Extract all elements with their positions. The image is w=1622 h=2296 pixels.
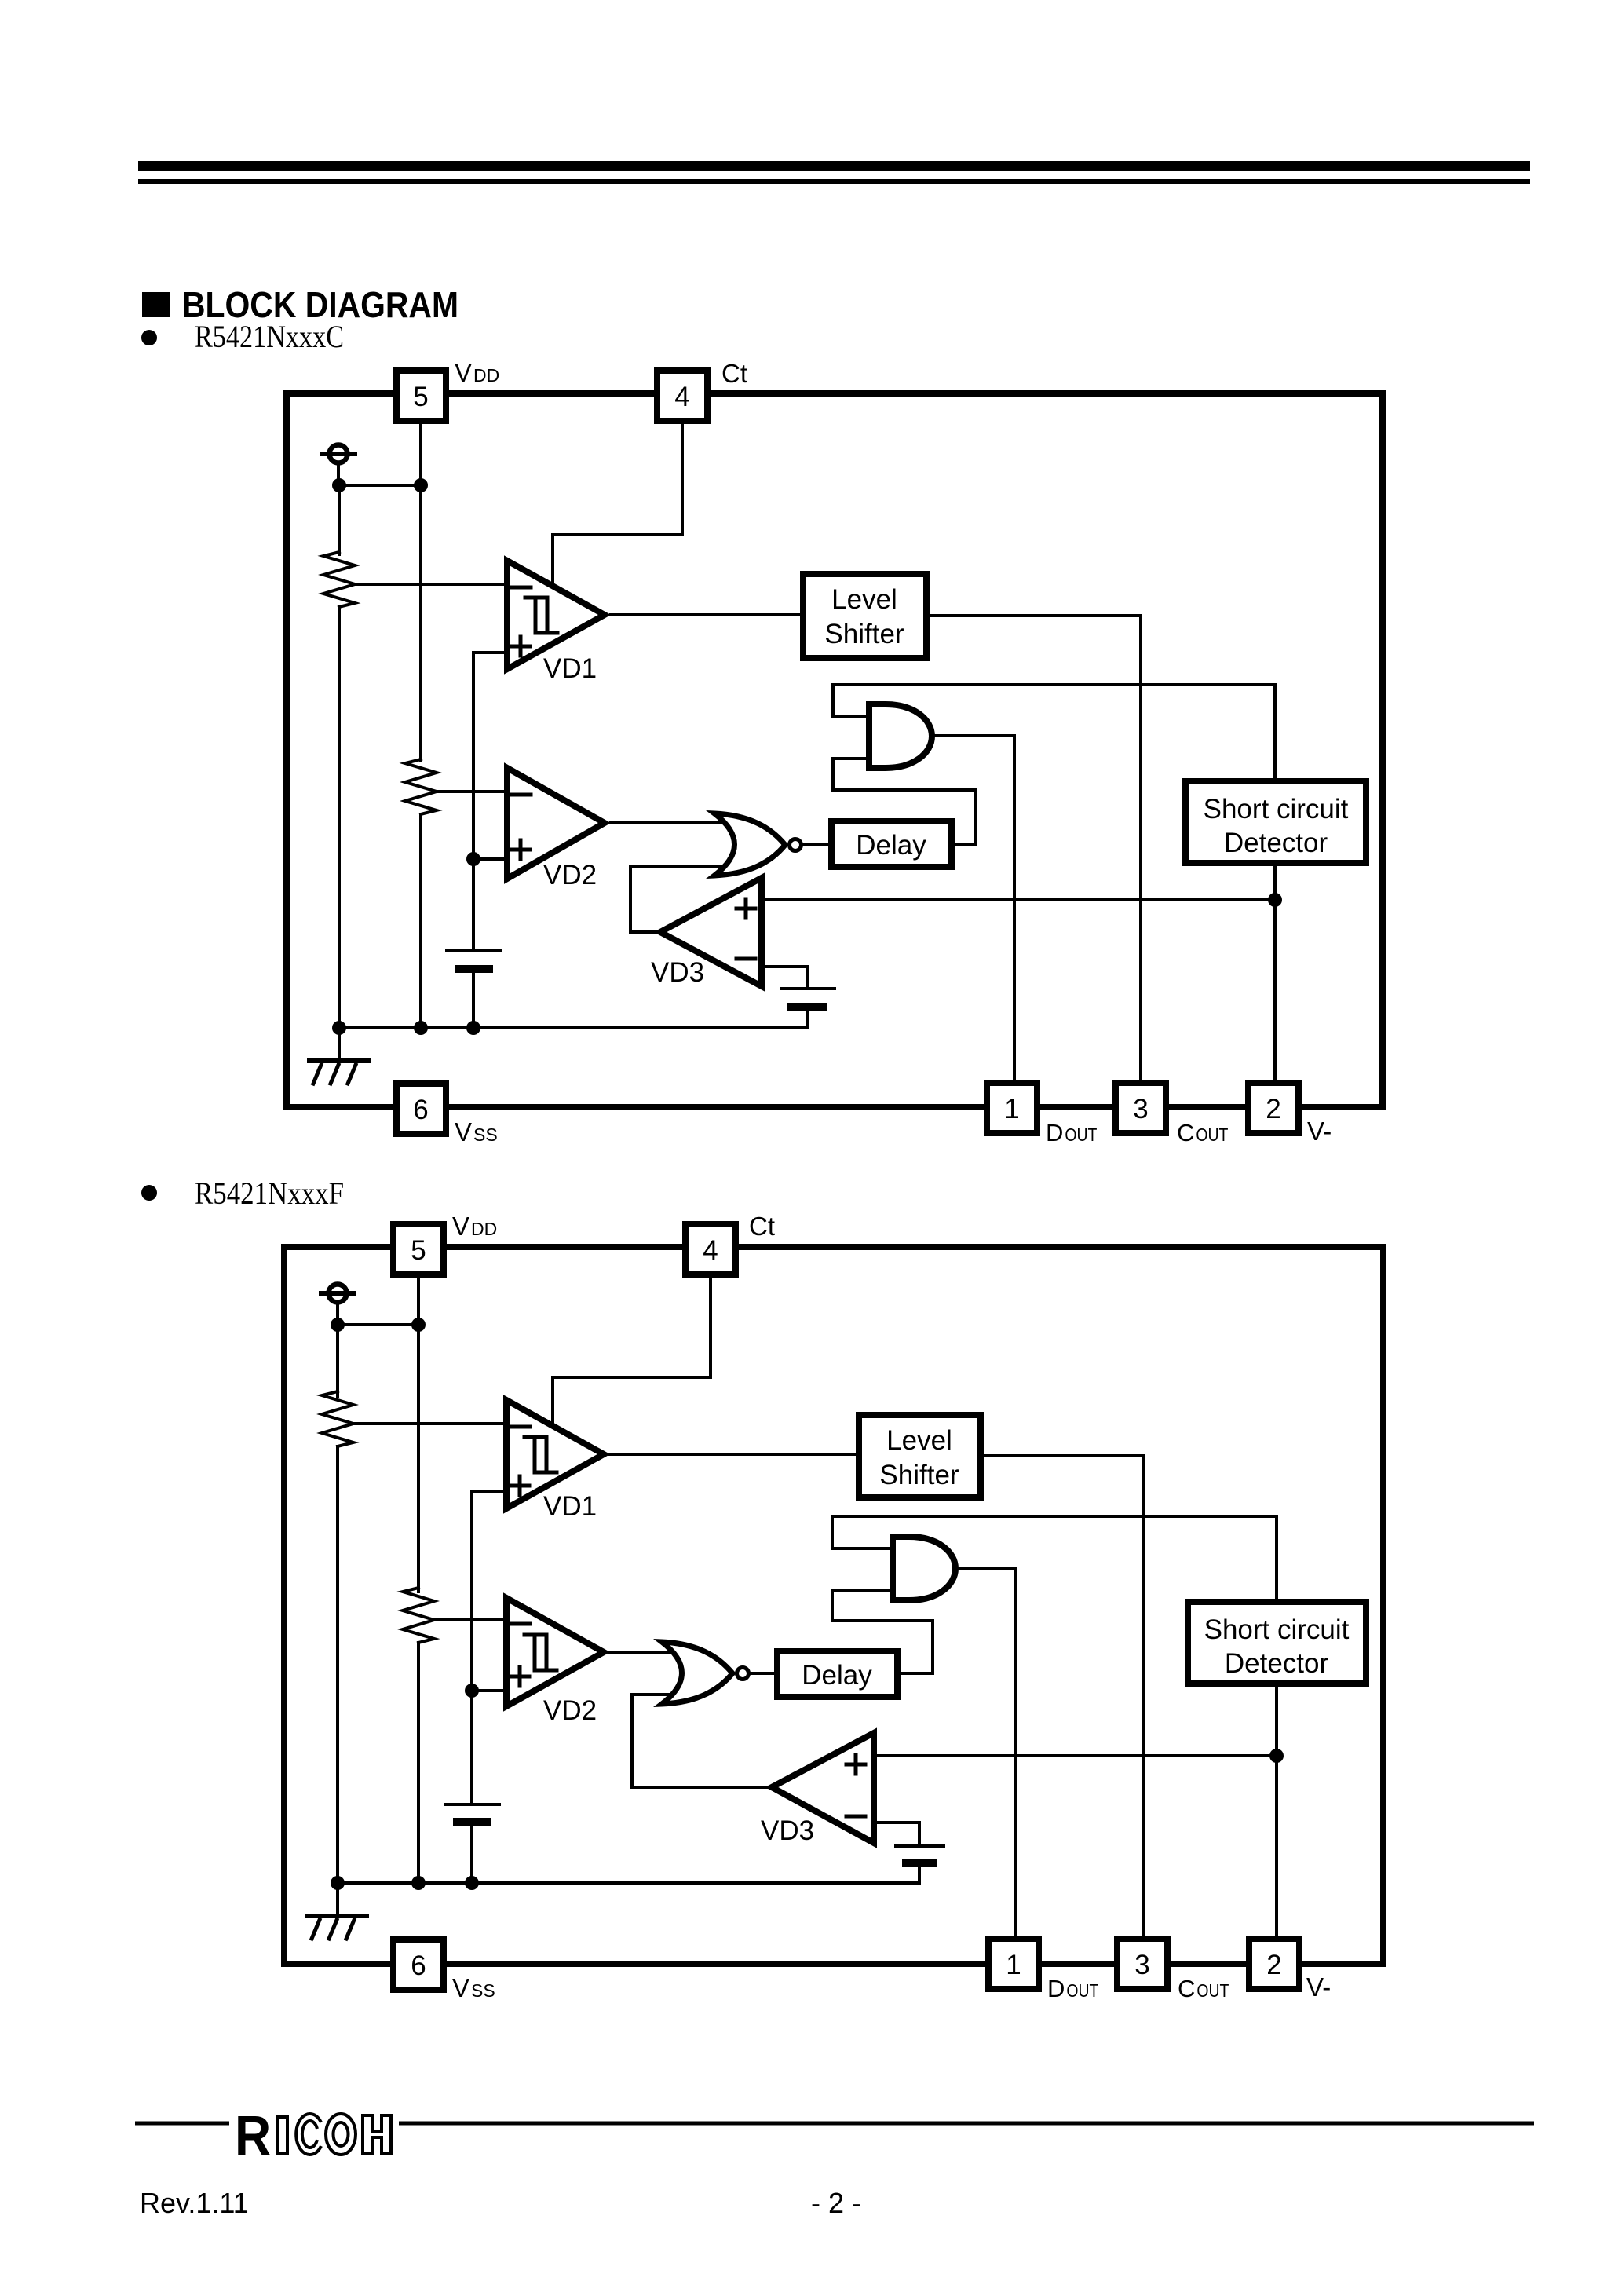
wire tap to VD2 minus [437,790,509,793]
node V- junction d2 [1269,1749,1284,1763]
op-amp VD1 [507,561,605,669]
wire Ct to VD1 [553,421,682,583]
svg-text:2: 2 [1266,1094,1280,1124]
svg-text:V-: V- [1307,1117,1332,1146]
wire VD3 plus to V- node [762,898,1275,901]
svg-text:VD3: VD3 [761,1815,814,1846]
short circuit detector box [1185,781,1366,863]
footer rule left [135,2122,229,2126]
battery B1 d2 [445,1804,499,1883]
diagram 2 boundary rectangle [284,1247,1383,1964]
wire AND bottom feed from delay d2 [832,1591,933,1673]
NOR gate U2 d2 [662,1642,732,1704]
wire ground rail d2 [338,1881,919,1885]
pin 6 box [396,1084,446,1134]
wire VD2 plus stub d2 [472,1689,508,1692]
svg-text:VD2: VD2 [543,860,597,890]
wire NOR to delay [804,843,831,846]
pin 3 box d2 [1117,1939,1167,1989]
wire VD1 output [611,613,803,616]
svg-text:3: 3 [1134,1950,1149,1980]
svg-text:R5421NxxxF: R5421NxxxF [195,1175,344,1211]
wire VD3 plus to V- node d2 [874,1754,1277,1757]
node VD2 plus d2 [465,1684,479,1698]
wire AND top feed d2 [832,1516,1277,1602]
node junction left d2 [331,1318,345,1332]
pin 2 box d2 [1249,1939,1299,1989]
svg-text:3: 3 [1133,1094,1148,1124]
svg-text:4: 4 [674,382,689,412]
bullet for R5421NxxxF [141,1185,157,1201]
delay box [831,821,952,867]
VD3 plus sign d2 [846,1755,865,1774]
top rule thick [138,161,1530,171]
ground symbol d2 [308,1883,367,1939]
wire SCD to pin2 d2 [1275,1684,1278,1939]
node VD2 plus [466,852,480,866]
battery B2 [782,989,835,1028]
VD1 plus sign [511,637,530,656]
VD2 minus sign d2 [511,1622,530,1626]
node junction right d2 [411,1318,426,1332]
svg-text:VD1: VD1 [543,1491,597,1522]
wire NOR to delay d2 [751,1672,777,1675]
wire to battery B1 [472,859,475,951]
svg-text:Ct: Ct [721,359,747,388]
wire AND bottom feed from delay [833,759,975,844]
ground symbol [309,1028,368,1084]
wire VD3 minus to battery B2 d2 [874,1823,919,1846]
wire AND top feed [833,685,1275,781]
wire Ct to VD1 d2 [553,1274,711,1422]
wire VD3 minus to battery B2 [762,967,807,989]
wire right chain upper d2 [417,1325,420,1592]
svg-text:6: 6 [411,1951,426,1981]
svg-text:- 2 -: - 2 - [811,2187,861,2219]
VD1 minus sign [512,586,531,590]
wire tap to VD1 minus d2 [353,1422,508,1425]
svg-text:1: 1 [1006,1950,1021,1980]
wire VD2 output to NOR d2 [610,1651,681,1654]
wire right chain lower [419,814,422,1028]
wire tap to VD1 minus [355,583,509,586]
AND gate U1 [869,704,932,768]
NOR output bubble d2 [737,1668,749,1680]
battery B1 [447,951,501,1028]
RICOH logo [235,2105,391,2167]
pin 2 box [1248,1083,1299,1133]
VDD source symbol (circle with bar) [322,445,355,486]
resistor R1 d2 [322,1391,353,1446]
svg-text:R: R [235,2105,271,2167]
VD2 plus sign d2 [510,1667,529,1686]
pin 1 box d2 [988,1939,1039,1989]
svg-text:DOUT: DOUT [1047,1975,1098,2002]
op-amp VD1 d2 [506,1400,604,1508]
op-amp VD2 [507,768,605,879]
NOR output bubble [790,839,802,851]
wire tap to VD2 minus d2 [434,1618,508,1621]
node junction right [414,478,428,492]
VD3 minus sign [736,957,755,961]
battery B2 d2 [896,1846,944,1883]
VD2 minus sign [512,793,531,797]
wire junction jumper d2 [338,1323,418,1326]
wire left chain upper [338,485,341,554]
wire right chain lower d2 [417,1643,420,1883]
VD1 hysteresis mark d2 [524,1437,557,1472]
node rail left d2 [331,1876,345,1890]
pin 1 box [987,1083,1037,1133]
wire ground rail [339,1026,807,1029]
NOR gate U2 [714,813,785,876]
VD1 plus sign d2 [510,1476,529,1495]
VD2 plus sign [511,840,530,859]
wire level shifter to Cout d2 [981,1456,1143,1939]
VD3 plus sign [736,899,755,918]
VD2 hysteresis mark d2 [524,1635,557,1670]
wire left chain lower d2 [336,1446,339,1883]
wire junction jumper [339,484,421,487]
node V- junction [1268,893,1282,907]
svg-text:DOUT: DOUT [1046,1119,1097,1146]
footer rule right [399,2122,1534,2126]
resistor R2 d2 [403,1588,434,1643]
svg-text:VDD: VDD [455,358,499,387]
bullet for R5421NxxxC [141,330,157,345]
level shifter box d2 [859,1415,981,1497]
wire level shifter to Cout [926,616,1141,1083]
wire VD2 plus stub [473,857,509,861]
short circuit detector box d2 [1188,1602,1366,1684]
wire SCD to pin2 [1273,863,1277,1083]
node rail mid [414,1021,428,1035]
VDD source symbol d2 [321,1285,354,1325]
VD1 hysteresis mark [525,598,557,633]
wire VD1 plus input [473,653,509,859]
svg-text:2: 2 [1266,1950,1281,1980]
svg-text:5: 5 [411,1235,426,1266]
wire VD2 output to NOR [611,821,734,824]
resistor R1 [323,552,355,607]
svg-text:VSS: VSS [452,1973,495,2002]
svg-text:Delay: Delay [802,1660,872,1691]
svg-text:Delay: Delay [856,830,926,861]
wire AND output to Dout d2 [955,1568,1015,1939]
node rail battery [466,1021,480,1035]
pin 5 box d2 [393,1224,444,1274]
pin 3 box [1116,1083,1166,1133]
svg-text:VSS: VSS [455,1117,498,1146]
svg-text:6: 6 [413,1095,428,1125]
wire right chain upper [419,485,422,760]
svg-text:1: 1 [1004,1094,1019,1124]
wire pin5 stem [419,421,422,485]
pin 4 box [657,371,707,421]
wire left chain upper d2 [336,1325,339,1396]
svg-text:VDD: VDD [452,1212,497,1241]
VD1 minus sign d2 [511,1425,530,1429]
wire VD1 output d2 [610,1453,859,1456]
op-amp VD3 d2 [772,1733,874,1843]
node rail battery d2 [465,1876,479,1890]
heading square bullet [142,292,170,317]
pin 6 box d2 [393,1940,444,1990]
AND gate U1 d2 [893,1537,955,1600]
node junction left [332,478,346,492]
wire to battery B1 d2 [470,1691,473,1804]
wire NOR bottom input from VD3 d2 [632,1695,771,1787]
wire NOR bottom input from VD3 [630,866,730,932]
delay box d2 [777,1651,897,1697]
svg-text:4: 4 [703,1235,718,1266]
resistor R2 [405,759,437,814]
VD3 minus sign d2 [846,1815,865,1819]
svg-text:5: 5 [413,382,428,412]
svg-text:VD1: VD1 [543,653,597,684]
node rail left [332,1021,346,1035]
pin 4 box d2 [685,1224,736,1274]
level shifter box [803,574,926,658]
svg-text:V-: V- [1306,1972,1331,2002]
svg-text:Ct: Ct [749,1212,775,1241]
wire AND output to Dout [932,736,1014,1083]
op-amp VD2 d2 [506,1598,604,1706]
op-amp VD3 [660,878,762,986]
node rail mid d2 [411,1876,426,1890]
svg-text:R5421NxxxC: R5421NxxxC [195,319,344,354]
wire pin5 stem d2 [417,1274,420,1325]
top rule thin [138,179,1530,184]
diagram 1 boundary rectangle [287,393,1383,1107]
svg-text:Rev.1.11: Rev.1.11 [140,2187,249,2219]
wire left chain lower [338,607,341,1028]
svg-text:VD3: VD3 [651,957,704,988]
pin 5 box [396,371,446,421]
svg-text:VD2: VD2 [543,1695,597,1726]
svg-text:COUT: COUT [1177,1119,1228,1146]
wire VD1 plus input d2 [472,1492,508,1691]
svg-text:COUT: COUT [1178,1975,1229,2002]
